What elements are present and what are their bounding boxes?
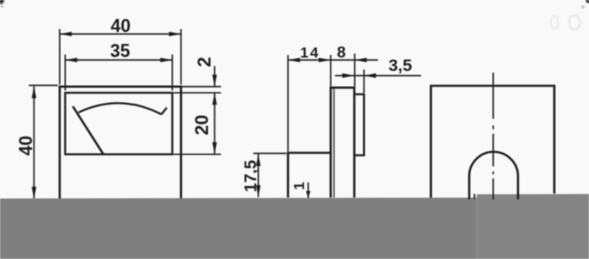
svg-text:2: 2 <box>194 57 215 67</box>
svg-text:35: 35 <box>110 41 130 61</box>
svg-text:3,5: 3,5 <box>388 56 412 75</box>
svg-text:20: 20 <box>191 115 212 136</box>
svg-text:14: 14 <box>300 44 320 61</box>
svg-text:40: 40 <box>111 16 131 36</box>
svg-text:8: 8 <box>337 45 346 62</box>
svg-text:40: 40 <box>16 136 36 156</box>
svg-text:1: 1 <box>292 182 308 190</box>
svg-text:17,5: 17,5 <box>242 160 260 192</box>
